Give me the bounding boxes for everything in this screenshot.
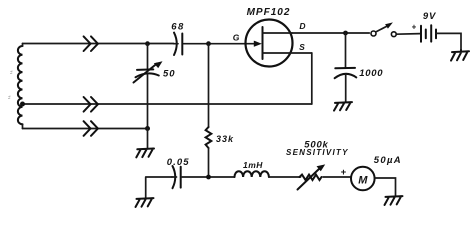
svg-text:S: S bbox=[299, 42, 305, 52]
svg-text:1mH: 1mH bbox=[243, 160, 263, 170]
ground below 0.05 bbox=[136, 198, 154, 207]
coil L1 plug-in tuning coil bbox=[18, 44, 23, 129]
ground below C2 bbox=[136, 149, 154, 158]
capacitor C3 0.05 bbox=[172, 166, 181, 188]
svg-text:50: 50 bbox=[163, 69, 176, 80]
connector chevrons bottom wire bbox=[84, 121, 98, 136]
node junction drain / C4 bbox=[343, 31, 348, 36]
wire top from coil to C1 bbox=[23, 43, 174, 45]
connector chevrons middle wire bbox=[84, 97, 98, 112]
capacitor C1 68 bbox=[174, 33, 183, 55]
node junction top wire / C2 variable bbox=[145, 41, 150, 46]
capacitor C2 variable 50 bbox=[134, 44, 163, 129]
wire L2 to R2 bbox=[269, 176, 301, 178]
ground right of battery bbox=[451, 50, 469, 61]
svg-text:1000: 1000 bbox=[359, 68, 383, 79]
wire C1 to gate bbox=[184, 43, 257, 45]
svg-text:SENSITIVITY: SENSITIVITY bbox=[286, 148, 349, 157]
wire switch to battery bbox=[396, 33, 420, 36]
ground below meter bbox=[385, 196, 403, 205]
meter M1 bbox=[351, 167, 375, 191]
svg-text:+: + bbox=[412, 22, 417, 31]
svg-text:+: + bbox=[341, 167, 347, 178]
inductor L2 1mH bbox=[235, 171, 269, 177]
wire battery to ground bbox=[436, 33, 461, 50]
wire to ground from C2 bbox=[147, 129, 149, 149]
node junction bottom coil / C2 / ground bbox=[145, 126, 150, 131]
wire source down-lead bbox=[311, 53, 313, 104]
resistor R1 33k bbox=[206, 44, 212, 177]
wire C3 to L2 bbox=[182, 176, 235, 178]
connector chevrons top wire bbox=[84, 36, 98, 51]
wire bottom coil to C2 bbox=[23, 128, 148, 130]
svg-text:50µA: 50µA bbox=[374, 155, 402, 166]
svg-text:9V: 9V bbox=[423, 11, 436, 22]
potentiometer R2 500k sensitivity bbox=[298, 164, 326, 189]
capacitor C4 1000 bbox=[335, 33, 357, 102]
wire drain to switch junction bbox=[292, 32, 369, 34]
svg-text:68: 68 bbox=[171, 21, 185, 32]
node junction R1 bottom bbox=[206, 175, 211, 180]
wire meter to ground bbox=[375, 178, 396, 196]
svg-text:D: D bbox=[299, 21, 305, 31]
node coil tap bbox=[20, 102, 25, 107]
svg-text:0.05: 0.05 bbox=[167, 157, 190, 168]
ground below C4 bbox=[334, 102, 352, 111]
wire middle from coil tap to source return bbox=[23, 103, 312, 105]
wire R2 to meter bbox=[323, 176, 351, 178]
svg-text:M: M bbox=[358, 174, 368, 186]
svg-text:33k: 33k bbox=[216, 134, 234, 144]
wire 0.05 to ground leg bbox=[146, 177, 172, 198]
switch S1 bbox=[371, 22, 396, 36]
node junction gate / R1 bbox=[206, 41, 211, 46]
speck artifacts near coil bbox=[8, 71, 12, 99]
svg-text:G: G bbox=[233, 33, 240, 43]
transistor Q1 MPF102 bbox=[246, 20, 312, 67]
battery B1 9V bbox=[421, 25, 436, 42]
svg-text:MPF102: MPF102 bbox=[247, 7, 291, 18]
